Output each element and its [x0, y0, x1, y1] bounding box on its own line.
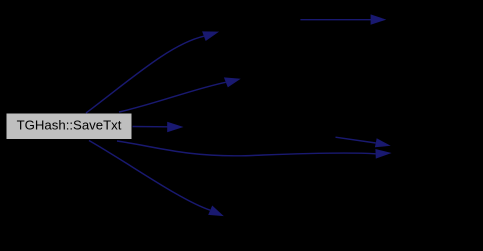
edge E: long shallow curve from node bottom to right arrow — [117, 141, 392, 159]
node TGHash::SaveTxt — [6, 113, 132, 140]
edge B: curve from node top to upper arrow — [86, 31, 219, 113]
svg-text:TGHash::SaveTxt: TGHash::SaveTxt — [17, 118, 122, 133]
edge D: short horizontal arrow from node right edge — [133, 122, 184, 132]
edge A1: straight arrow top right — [300, 14, 386, 24]
edge C: line from node top to second arrow — [119, 77, 241, 112]
edge F: short sloped arrow into right node — [336, 137, 391, 147]
edge G: curve from node bottom down to lower arrow — [89, 141, 224, 217]
